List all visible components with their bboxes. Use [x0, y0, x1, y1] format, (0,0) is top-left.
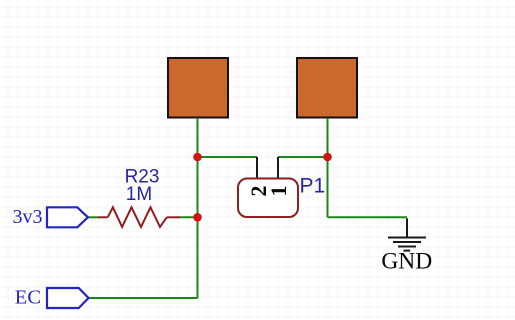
connector P1 pin 1: [277, 157, 279, 179]
wire: [197, 157, 199, 217]
ground bar 4: [404, 250, 411, 252]
node junction: [193, 153, 202, 162]
ground bar 3: [398, 246, 416, 248]
svg-text:1M: 1M: [126, 184, 152, 205]
wire: [278, 156, 328, 158]
wire: [197, 118, 199, 157]
wire: [181, 216, 198, 218]
wire: [88, 297, 198, 299]
resistor R23 lead left: [98, 216, 108, 218]
port EC symbol: [47, 288, 89, 308]
svg-text:P1: P1: [300, 175, 326, 198]
wire: [328, 216, 408, 218]
connector P1 pin 2: [256, 157, 258, 179]
pad square top-left: [168, 58, 228, 118]
port 3v3 symbol: [47, 207, 88, 227]
connector P1 body: [238, 179, 298, 218]
svg-text:1: 1: [266, 186, 291, 197]
node junction: [323, 153, 332, 162]
resistor R23 zigzag: [108, 207, 167, 227]
wire: [327, 118, 329, 157]
wire: [327, 157, 329, 217]
wire: [198, 156, 258, 158]
pad square top-right: [297, 58, 357, 118]
ground bar 2: [393, 241, 421, 243]
svg-text:3v3: 3v3: [13, 206, 43, 228]
svg-text:GND: GND: [381, 248, 432, 274]
wire: [197, 217, 199, 298]
wire: [88, 216, 99, 218]
node junction: [193, 213, 202, 222]
ground bar 1: [388, 237, 426, 239]
svg-text:EC: EC: [15, 287, 41, 309]
ground stem: [406, 218, 408, 237]
resistor R23 lead right: [167, 216, 181, 218]
